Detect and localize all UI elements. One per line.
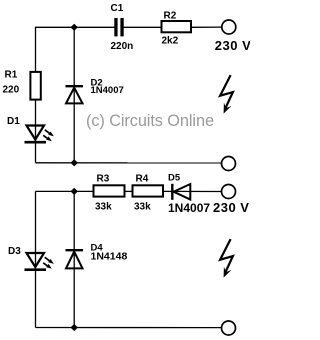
wire top rail circuit 2: [36, 190, 94, 192]
svg-text:D1: D1: [7, 116, 20, 127]
mains flash symbol circuit 1: [220, 75, 233, 109]
wire bottom rail circuit 2: [36, 327, 222, 329]
junction dot bottom circuit 2: [71, 324, 78, 331]
junction dot top circuit 2: [71, 188, 78, 195]
svg-text:R4: R4: [136, 174, 149, 185]
wire left rail circuit 2: [35, 191, 37, 327]
junction dot bottom circuit 1: [71, 159, 78, 166]
svg-text:1N4007: 1N4007: [91, 85, 124, 96]
wire bottom rail circuit 1: [36, 162, 222, 164]
diode D5: [172, 184, 190, 200]
svg-text:D5: D5: [168, 173, 181, 184]
LED D1: [25, 126, 51, 143]
wire top rail left segment: [36, 27, 115, 163]
svg-text:(c) Circuits Online: (c) Circuits Online: [86, 112, 214, 130]
svg-text:1N4148: 1N4148: [91, 251, 128, 263]
svg-text:220: 220: [3, 85, 20, 96]
resistor R4: [133, 185, 164, 196]
svg-text:R1: R1: [5, 70, 18, 81]
svg-text:D3: D3: [8, 246, 21, 257]
svg-text:2k2: 2k2: [162, 36, 179, 47]
diode D2: [66, 86, 84, 103]
capacitor C1: [114, 18, 123, 36]
svg-text:230 V: 230 V: [215, 38, 250, 53]
resistor R2: [162, 21, 192, 32]
svg-text:C1: C1: [111, 3, 124, 14]
wire D4 branch: [73, 191, 75, 327]
resistor R1: [30, 72, 40, 100]
svg-text:1N4007: 1N4007: [168, 201, 210, 215]
svg-text:R2: R2: [164, 11, 177, 22]
svg-text:33k: 33k: [95, 202, 112, 213]
svg-text:230 V: 230 V: [213, 200, 249, 215]
wire R4 to D5 and terminal: [163, 190, 222, 192]
resistor R3: [94, 185, 125, 196]
mains flash symbol circuit 2: [220, 239, 233, 273]
svg-text:R3: R3: [97, 174, 110, 185]
terminal circle top right circuit 2: [222, 185, 236, 199]
terminal circle bottom right circuit 1: [222, 157, 236, 171]
diode D4: [66, 250, 84, 268]
wire C1 to R2: [124, 26, 162, 28]
svg-text:220n: 220n: [111, 41, 134, 52]
wire R3 to R4: [125, 190, 133, 192]
wire D2 branch: [73, 27, 75, 163]
svg-text:33k: 33k: [134, 202, 151, 213]
terminal circle top right circuit 1: [222, 20, 236, 34]
terminal circle bottom right circuit 2: [222, 321, 236, 335]
wire R2 to terminal: [191, 26, 222, 28]
junction dot top circuit 1: [71, 24, 78, 31]
LED D3: [25, 253, 51, 270]
